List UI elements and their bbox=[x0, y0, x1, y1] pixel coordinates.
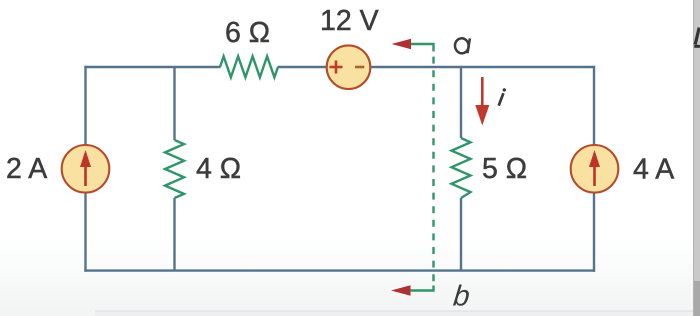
svg-text:4 A: 4 A bbox=[633, 154, 674, 186]
svg-text:2 A: 2 A bbox=[6, 153, 47, 185]
svg-text:6 Ω: 6 Ω bbox=[225, 17, 270, 49]
svg-text:4 Ω: 4 Ω bbox=[196, 153, 241, 185]
svg-text:b: b bbox=[452, 280, 471, 312]
svg-text:5 Ω: 5 Ω bbox=[482, 153, 527, 185]
svg-text:12 V: 12 V bbox=[320, 5, 379, 37]
